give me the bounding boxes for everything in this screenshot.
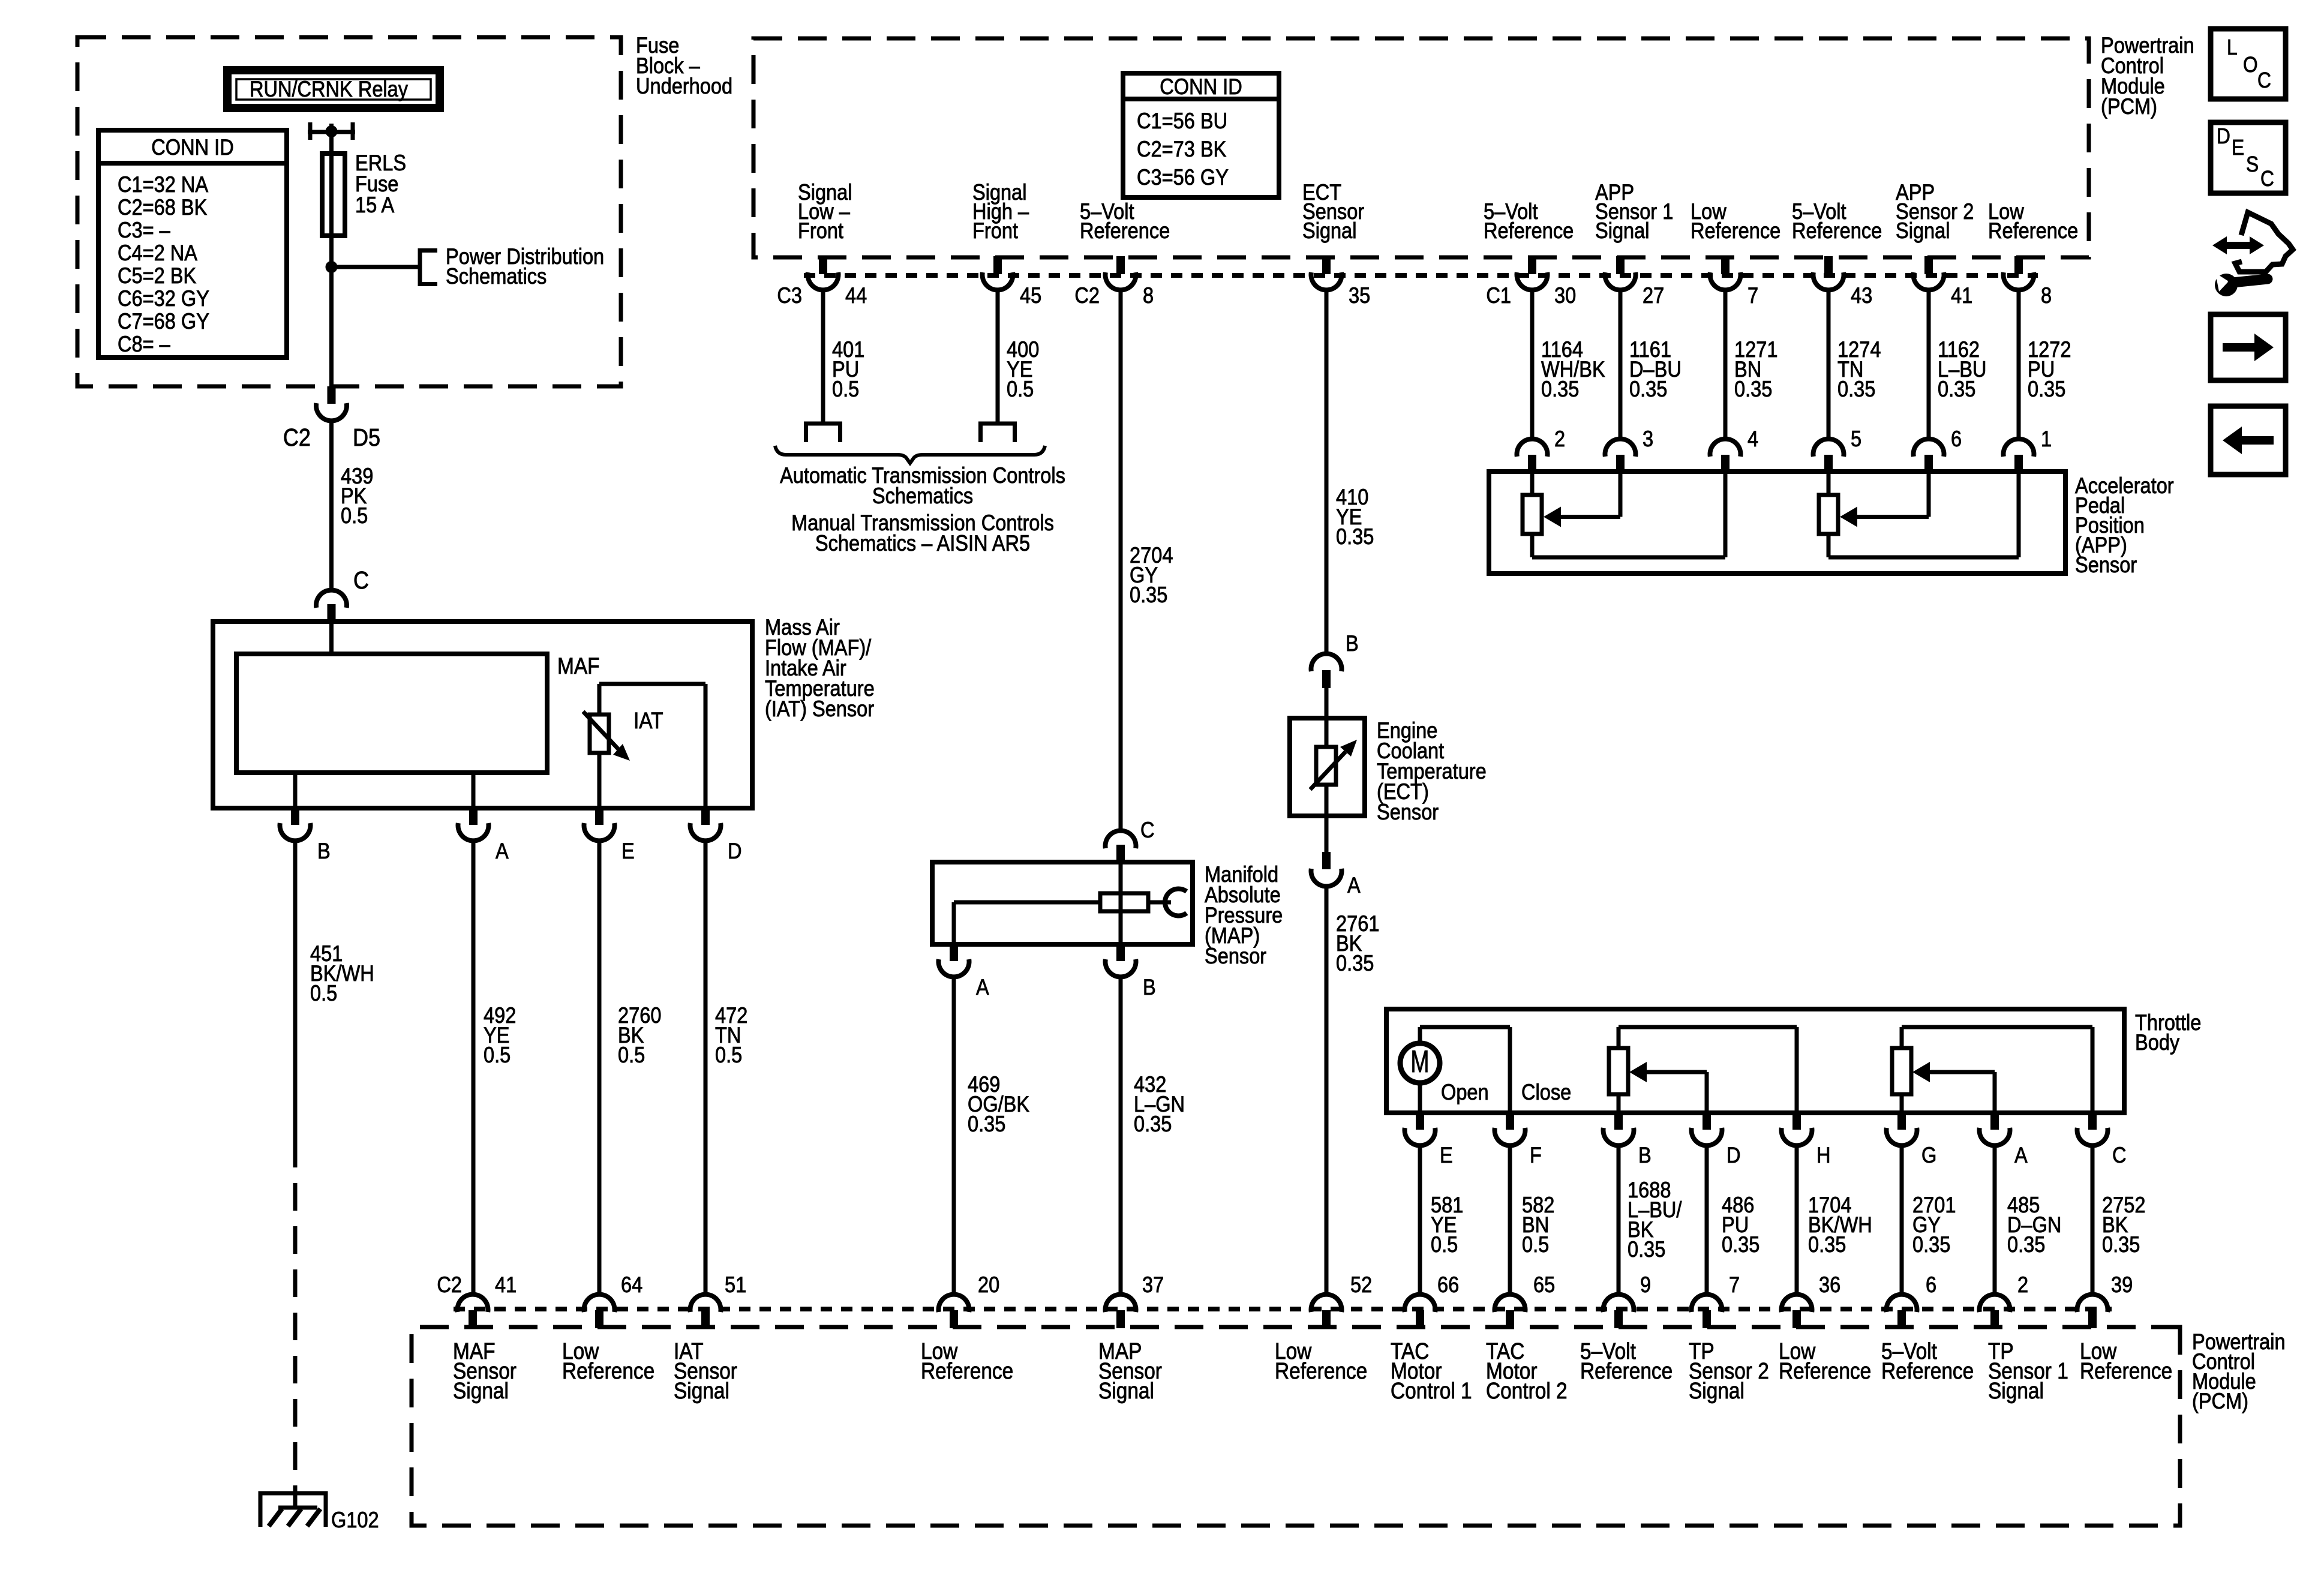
wire 1688 L-BU/BK bbox=[1617, 1145, 1621, 1295]
svg-text:C: C bbox=[2257, 68, 2271, 92]
svg-text:41: 41 bbox=[1951, 283, 1972, 308]
wire 439 PK 0.5 bbox=[329, 421, 334, 573]
svg-text:0.35: 0.35 bbox=[1938, 377, 1975, 401]
svg-text:Reference: Reference bbox=[1792, 218, 1882, 243]
pin 8 PCM bbox=[2014, 256, 2023, 274]
ECT thermistor RT bbox=[1325, 718, 1329, 747]
svg-text:S: S bbox=[2246, 152, 2259, 176]
svg-text:2: 2 bbox=[1554, 427, 1565, 451]
svg-text:52: 52 bbox=[1350, 1272, 1372, 1297]
svg-text:8: 8 bbox=[2041, 283, 2052, 308]
wire 469 OG/BK 0.35 bbox=[952, 977, 956, 1295]
svg-text:0.5: 0.5 bbox=[341, 503, 368, 528]
svg-text:0.5: 0.5 bbox=[310, 981, 337, 1005]
connector A below ECT bbox=[1325, 816, 1329, 852]
pin 45 PCM bbox=[993, 256, 1002, 274]
svg-text:27: 27 bbox=[1643, 283, 1664, 308]
icon LOC bbox=[2211, 29, 2286, 99]
ECT sensor box bbox=[1290, 718, 1365, 816]
pin 37 PCM bottom bbox=[1116, 1310, 1125, 1328]
pin 7 PCM bottom bbox=[1703, 1310, 1711, 1328]
svg-text:(PCM): (PCM) bbox=[2101, 94, 2157, 119]
svg-text:65: 65 bbox=[1533, 1272, 1555, 1297]
svg-text:0.5: 0.5 bbox=[618, 1043, 645, 1067]
svg-text:D: D bbox=[2217, 124, 2230, 148]
wire 2701 GY bbox=[1900, 1145, 1904, 1295]
svg-text:A: A bbox=[1347, 873, 1361, 897]
svg-text:36: 36 bbox=[1819, 1272, 1840, 1297]
svg-text:M: M bbox=[1410, 1044, 1429, 1079]
svg-text:Sensor: Sensor bbox=[2075, 553, 2137, 577]
pin 1 APP bbox=[2014, 455, 2023, 473]
svg-text:64: 64 bbox=[621, 1272, 642, 1297]
svg-text:Reference: Reference bbox=[1881, 1358, 1974, 1383]
pin E MAF bbox=[595, 807, 603, 825]
wire 2760 BK 0.5 bbox=[597, 840, 602, 1295]
svg-text:C8= –: C8= – bbox=[118, 332, 170, 356]
pin A MAF bbox=[469, 807, 478, 825]
svg-text:Signal: Signal bbox=[1098, 1378, 1154, 1403]
wire IAT to pin E bbox=[597, 753, 602, 808]
svg-text:C3: C3 bbox=[777, 283, 802, 308]
pin A TB bbox=[1990, 1112, 1999, 1130]
svg-text:G: G bbox=[1921, 1143, 1936, 1167]
svg-text:Control 1: Control 1 bbox=[1391, 1378, 1472, 1403]
pin B MAP bbox=[1116, 943, 1125, 961]
junction node bbox=[326, 261, 338, 273]
wire 472 TN 0.5 bbox=[704, 840, 708, 1295]
svg-text:C4=2 NA: C4=2 NA bbox=[118, 241, 198, 265]
wire 1272 PU bbox=[2017, 290, 2021, 439]
svg-text:0.5: 0.5 bbox=[484, 1043, 511, 1067]
svg-text:51: 51 bbox=[725, 1272, 746, 1297]
pin 41 PCM bottom bbox=[469, 1310, 477, 1328]
svg-text:C5=2 BK: C5=2 BK bbox=[118, 263, 196, 288]
svg-text:0.35: 0.35 bbox=[1808, 1232, 1846, 1257]
svg-text:Front: Front bbox=[972, 218, 1018, 243]
fuse F1 ERLS 15A bbox=[322, 154, 345, 236]
pin 65 PCM bottom bbox=[1506, 1310, 1514, 1328]
connector table CONN ID (fuse block) bbox=[98, 130, 287, 358]
svg-text:A: A bbox=[2014, 1143, 2028, 1167]
svg-text:Sensor: Sensor bbox=[1205, 944, 1267, 968]
svg-text:Signal: Signal bbox=[1595, 218, 1649, 243]
svg-text:H: H bbox=[1816, 1143, 1831, 1167]
pin 41 PCM bbox=[1924, 256, 1933, 274]
svg-text:Reference: Reference bbox=[562, 1358, 654, 1383]
svg-text:0.35: 0.35 bbox=[2102, 1232, 2140, 1257]
wire to power distribution bbox=[332, 265, 421, 269]
fuse block underhood dashed box bbox=[77, 37, 621, 386]
TB potentiometer TP1 bbox=[1892, 1048, 1911, 1094]
wire 485 D–GN bbox=[1993, 1145, 1997, 1295]
svg-text:G102: G102 bbox=[331, 1508, 379, 1532]
pin B MAF bbox=[291, 807, 299, 825]
svg-text:F: F bbox=[1530, 1143, 1542, 1167]
pin 27 PCM bbox=[1616, 256, 1625, 274]
svg-text:Schematics – AISIN AR5: Schematics – AISIN AR5 bbox=[815, 531, 1030, 556]
svg-text:B: B bbox=[1346, 631, 1359, 656]
wire B to ECT bbox=[1325, 688, 1329, 718]
svg-text:C: C bbox=[2112, 1143, 2127, 1167]
svg-text:Signal: Signal bbox=[1302, 218, 1356, 243]
svg-text:2: 2 bbox=[2017, 1272, 2028, 1297]
svg-text:E: E bbox=[621, 839, 635, 863]
icon arrow right bbox=[2211, 314, 2286, 380]
svg-text:B: B bbox=[1638, 1143, 1652, 1167]
pin 6 APP bbox=[1924, 455, 1933, 473]
wire 1274 TN bbox=[1827, 290, 1831, 439]
connector C at MAF bbox=[316, 590, 347, 608]
svg-text:0.35: 0.35 bbox=[1734, 377, 1772, 401]
svg-text:C7=68 GY: C7=68 GY bbox=[118, 309, 209, 334]
svg-text:45: 45 bbox=[1020, 283, 1041, 308]
pin 5 APP bbox=[1824, 455, 1833, 473]
brace to transmission schematics bbox=[775, 446, 1045, 463]
pin E TB bbox=[1416, 1112, 1424, 1130]
PCM dashed box (top) bbox=[753, 38, 2089, 257]
icon DESC bbox=[2211, 122, 2286, 193]
off-page bracket power distribution bbox=[418, 248, 422, 286]
connector dotted line top bbox=[804, 273, 2038, 278]
wire 451 BK/WH 0.5 bbox=[293, 840, 298, 1140]
svg-text:A: A bbox=[496, 839, 509, 863]
wire 400 YE 0.5 bbox=[996, 290, 1000, 424]
svg-text:37: 37 bbox=[1142, 1272, 1164, 1297]
svg-text:Signal: Signal bbox=[1988, 1378, 2044, 1403]
svg-text:6: 6 bbox=[1926, 1272, 1936, 1297]
svg-text:0.35: 0.35 bbox=[1837, 377, 1875, 401]
svg-text:Control 2: Control 2 bbox=[1486, 1378, 1568, 1403]
svg-text:0.35: 0.35 bbox=[1134, 1112, 1172, 1136]
svg-text:(IAT) Sensor: (IAT) Sensor bbox=[765, 697, 874, 721]
wire 401 PU 0.5 bbox=[821, 290, 825, 424]
svg-text:D: D bbox=[1727, 1143, 1741, 1167]
APP potentiometer 2 bbox=[1819, 495, 1838, 534]
relay K1 RUN/CRNK Relay box bbox=[227, 70, 440, 108]
ground G102 bbox=[260, 1493, 326, 1527]
svg-text:7: 7 bbox=[1729, 1272, 1740, 1297]
wire 1164 WH/BK bbox=[1530, 290, 1535, 439]
svg-text:0.35: 0.35 bbox=[1336, 524, 1374, 549]
pin D MAF bbox=[701, 807, 710, 825]
svg-text:0.5: 0.5 bbox=[1431, 1232, 1458, 1257]
wire 2761 BK 0.35 bbox=[1325, 886, 1329, 1295]
svg-text:C3= –: C3= – bbox=[118, 218, 170, 242]
pin 36 PCM bottom bbox=[1792, 1310, 1801, 1328]
svg-text:0.35: 0.35 bbox=[1336, 951, 1374, 975]
fuse holder bracket bbox=[308, 122, 313, 140]
svg-text:Sensor: Sensor bbox=[1377, 800, 1439, 824]
wire into MAF bbox=[329, 622, 334, 654]
throttle body box bbox=[1386, 1009, 2124, 1113]
off-page terminal 44 bbox=[804, 422, 842, 426]
svg-text:Reference: Reference bbox=[1691, 218, 1780, 243]
svg-text:Signal: Signal bbox=[674, 1378, 729, 1403]
svg-text:B: B bbox=[1143, 975, 1156, 999]
svg-text:0.35: 0.35 bbox=[2007, 1232, 2045, 1257]
wire 1704 BK/WH bbox=[1795, 1145, 1799, 1295]
svg-text:C2: C2 bbox=[1074, 283, 1100, 308]
connector C2/D5 bbox=[328, 386, 336, 404]
svg-text:RUN/CRNK Relay: RUN/CRNK Relay bbox=[250, 77, 409, 101]
svg-text:0.5: 0.5 bbox=[715, 1043, 742, 1067]
pin D TB bbox=[1703, 1112, 1711, 1130]
svg-text:D5: D5 bbox=[353, 424, 380, 452]
svg-text:Reference: Reference bbox=[1275, 1358, 1367, 1383]
pin H TB bbox=[1792, 1112, 1801, 1130]
svg-text:5: 5 bbox=[1851, 427, 1861, 451]
pin B TB bbox=[1614, 1112, 1623, 1130]
svg-text:C: C bbox=[2260, 167, 2274, 191]
wire 410 YE 0.35 bbox=[1325, 290, 1329, 654]
pin 2 APP bbox=[1528, 455, 1536, 473]
svg-text:0.35: 0.35 bbox=[1130, 583, 1167, 607]
pin 39 PCM bottom bbox=[2088, 1310, 2097, 1328]
svg-text:Signal: Signal bbox=[1896, 218, 1950, 243]
svg-text:(PCM): (PCM) bbox=[2192, 1389, 2248, 1413]
wire 492 YE 0.5 bbox=[472, 840, 476, 1295]
svg-text:Schematics: Schematics bbox=[446, 264, 547, 289]
svg-text:Reference: Reference bbox=[2080, 1358, 2172, 1383]
svg-text:C6=32 GY: C6=32 GY bbox=[118, 286, 209, 311]
svg-text:C2: C2 bbox=[437, 1272, 462, 1297]
TAC motor M bbox=[1400, 1043, 1440, 1083]
svg-text:C2=73 BK: C2=73 BK bbox=[1137, 137, 1226, 161]
svg-text:IAT: IAT bbox=[633, 708, 663, 733]
svg-text:0.35: 0.35 bbox=[1912, 1232, 1950, 1257]
svg-text:C1=32 NA: C1=32 NA bbox=[118, 172, 209, 197]
svg-text:0.5: 0.5 bbox=[1522, 1232, 1549, 1257]
svg-text:0.5: 0.5 bbox=[1007, 377, 1034, 401]
pin 20 PCM bottom bbox=[950, 1310, 958, 1328]
wire 486 PU bbox=[1705, 1145, 1709, 1295]
svg-text:A: A bbox=[976, 975, 989, 999]
wire 2752 BK bbox=[2091, 1145, 2095, 1295]
pin 8 PCM bbox=[1116, 256, 1125, 274]
pin 64 PCM bottom bbox=[595, 1310, 603, 1328]
pin A MAP bbox=[950, 943, 958, 961]
svg-text:C2=68 BK: C2=68 BK bbox=[118, 195, 207, 220]
svg-text:41: 41 bbox=[495, 1272, 517, 1297]
svg-text:CONN ID: CONN ID bbox=[151, 135, 233, 160]
svg-text:C: C bbox=[1140, 818, 1155, 842]
IAT thermistor RT bbox=[590, 715, 609, 753]
pin 66 PCM bottom bbox=[1416, 1310, 1424, 1328]
svg-text:39: 39 bbox=[2111, 1272, 2133, 1297]
svg-text:Underhood: Underhood bbox=[636, 74, 732, 98]
pin 9 PCM bottom bbox=[1614, 1310, 1623, 1328]
wire from relay through fuse bbox=[329, 124, 334, 386]
svg-text:Reference: Reference bbox=[921, 1358, 1013, 1383]
svg-text:Front: Front bbox=[798, 218, 843, 243]
svg-text:0.35: 0.35 bbox=[2028, 377, 2065, 401]
wire 2704 GY 0.35 bbox=[1119, 290, 1123, 829]
svg-text:0.35: 0.35 bbox=[1629, 377, 1667, 401]
svg-text:6: 6 bbox=[1951, 427, 1962, 451]
svg-text:Close: Close bbox=[1521, 1080, 1571, 1104]
pin 43 PCM bbox=[1824, 256, 1833, 274]
APP sensor box bbox=[1489, 472, 2065, 574]
svg-text:Reference: Reference bbox=[1080, 218, 1170, 243]
IAT loop bbox=[599, 682, 705, 686]
pin C TB bbox=[2088, 1112, 2097, 1130]
wire 432 L-GN 0.35 bbox=[1119, 977, 1123, 1295]
svg-text:Reference: Reference bbox=[1484, 218, 1574, 243]
svg-text:E: E bbox=[1440, 1143, 1453, 1167]
svg-text:3: 3 bbox=[1643, 427, 1653, 451]
svg-text:E: E bbox=[2232, 136, 2244, 160]
pin 7 PCM bbox=[1721, 256, 1730, 274]
pin G TB bbox=[1897, 1112, 1906, 1130]
svg-text:Open: Open bbox=[1441, 1080, 1489, 1104]
svg-text:Body: Body bbox=[2135, 1030, 2180, 1055]
svg-text:C: C bbox=[353, 567, 369, 595]
icon schematic wrench bbox=[2212, 236, 2264, 254]
TB potentiometer TP2 bbox=[1609, 1048, 1628, 1094]
connector C at MAP bbox=[1106, 831, 1136, 848]
svg-text:44: 44 bbox=[845, 283, 867, 308]
wire 1271 BN bbox=[1724, 290, 1728, 439]
svg-text:43: 43 bbox=[1851, 283, 1872, 308]
svg-text:Reference: Reference bbox=[1779, 1358, 1871, 1383]
svg-text:C3=56 GY: C3=56 GY bbox=[1137, 165, 1229, 190]
MAF inner box bbox=[236, 654, 547, 773]
svg-text:D: D bbox=[728, 839, 742, 863]
icon arrow left bbox=[2211, 406, 2286, 475]
wire 581 YE bbox=[1418, 1145, 1422, 1295]
pin 4 APP bbox=[1721, 455, 1730, 473]
svg-text:C1: C1 bbox=[1486, 283, 1511, 308]
pin 2 PCM bottom bbox=[1990, 1310, 1999, 1328]
svg-text:CONN ID: CONN ID bbox=[1160, 74, 1242, 99]
wires MAF B A to box edge bbox=[293, 773, 298, 808]
svg-text:L: L bbox=[2227, 35, 2238, 59]
svg-text:0.35: 0.35 bbox=[968, 1112, 1005, 1136]
svg-text:Reference: Reference bbox=[1580, 1358, 1673, 1383]
svg-text:Reference: Reference bbox=[1988, 218, 2078, 243]
svg-text:Signal: Signal bbox=[1689, 1378, 1744, 1403]
connector table CONN ID (PCM) bbox=[1123, 73, 1279, 197]
MAP sensor box bbox=[932, 862, 1193, 944]
svg-text:4: 4 bbox=[1747, 427, 1758, 451]
svg-text:15 A: 15 A bbox=[355, 193, 395, 217]
svg-text:9: 9 bbox=[1640, 1272, 1651, 1297]
pin 30 PCM bbox=[1528, 256, 1536, 274]
APP potentiometer 1 bbox=[1523, 495, 1542, 534]
pin 51 PCM bottom bbox=[701, 1310, 710, 1328]
svg-text:8: 8 bbox=[1143, 283, 1154, 308]
connector dotted line bottom bbox=[454, 1307, 2112, 1311]
svg-text:Schematics: Schematics bbox=[872, 484, 973, 508]
svg-text:Signal: Signal bbox=[453, 1378, 509, 1403]
pin 44 PCM bbox=[819, 256, 827, 274]
svg-text:66: 66 bbox=[1437, 1272, 1459, 1297]
svg-text:0.35: 0.35 bbox=[1722, 1232, 1759, 1257]
pin F TB bbox=[1506, 1112, 1514, 1130]
pin 52 PCM bottom bbox=[1322, 1310, 1331, 1328]
svg-text:7: 7 bbox=[1747, 283, 1758, 308]
svg-text:0.5: 0.5 bbox=[832, 377, 859, 401]
svg-text:0.35: 0.35 bbox=[1541, 377, 1579, 401]
svg-text:O: O bbox=[2243, 53, 2258, 77]
wire 582 BN bbox=[1508, 1145, 1512, 1295]
svg-text:35: 35 bbox=[1349, 283, 1370, 308]
PCM dashed box (bottom) bbox=[412, 1327, 2180, 1526]
svg-text:30: 30 bbox=[1554, 283, 1576, 308]
wire 1162 L–BU bbox=[1927, 290, 1931, 439]
MAP inner element bbox=[1119, 862, 1123, 944]
pin 6 PCM bottom bbox=[1897, 1310, 1906, 1328]
pin 35 PCM bbox=[1322, 256, 1331, 274]
svg-text:1: 1 bbox=[2041, 427, 2052, 451]
svg-text:20: 20 bbox=[978, 1272, 999, 1297]
svg-text:B: B bbox=[317, 839, 331, 863]
svg-text:C2: C2 bbox=[283, 424, 311, 452]
wire 1161 D–BU bbox=[1619, 290, 1623, 439]
svg-text:C1=56 BU: C1=56 BU bbox=[1137, 109, 1227, 133]
off-page terminal 45 bbox=[978, 422, 1017, 426]
pin 3 APP bbox=[1616, 455, 1625, 473]
svg-text:0.35: 0.35 bbox=[1628, 1237, 1665, 1262]
MAF/IAT sensor outer box bbox=[213, 622, 752, 808]
svg-text:MAF: MAF bbox=[557, 653, 600, 679]
connector B on ECT wire bbox=[1311, 654, 1342, 671]
